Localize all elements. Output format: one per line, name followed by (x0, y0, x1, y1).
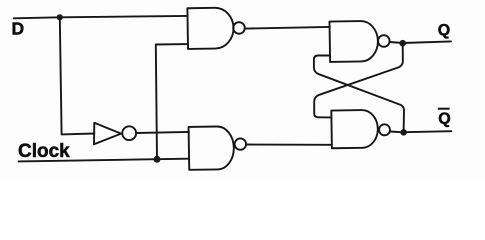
wire inverter output to U2 (136, 132, 189, 133)
wire U2 output to U4 (246, 144, 332, 146)
wire Clock up to U1 (156, 44, 188, 159)
nand U2 (189, 126, 247, 170)
nand U1 (187, 7, 245, 49)
wire U1 output to U3 (245, 27, 330, 29)
junction dot J3 (399, 40, 406, 47)
wire D input (14, 16, 188, 18)
svg-text:Q: Q (438, 111, 450, 128)
wire D down to inverter (60, 17, 95, 134)
nand U4 (331, 110, 390, 149)
wire Qbar output (404, 131, 452, 132)
wire Q output (403, 41, 451, 43)
wire U4 bubble to node Qbar (390, 131, 404, 134)
svg-text:Clock: Clock (18, 141, 70, 162)
nand U3 (329, 21, 389, 62)
svg-text:D: D (12, 19, 25, 39)
wire cross-couple Q to U4 input (314, 43, 403, 117)
svg-text:Q: Q (438, 22, 450, 39)
junction dot J1 (57, 14, 63, 20)
node Qbar label (438, 108, 451, 128)
junction dot J2 (154, 156, 161, 163)
wire Clock (19, 159, 189, 162)
inverter U5 (94, 123, 136, 145)
junction dot J4 (400, 129, 407, 136)
wire cross-couple Qbar to U3 input (314, 56, 404, 133)
wire U3 bubble to node Q (390, 42, 403, 43)
